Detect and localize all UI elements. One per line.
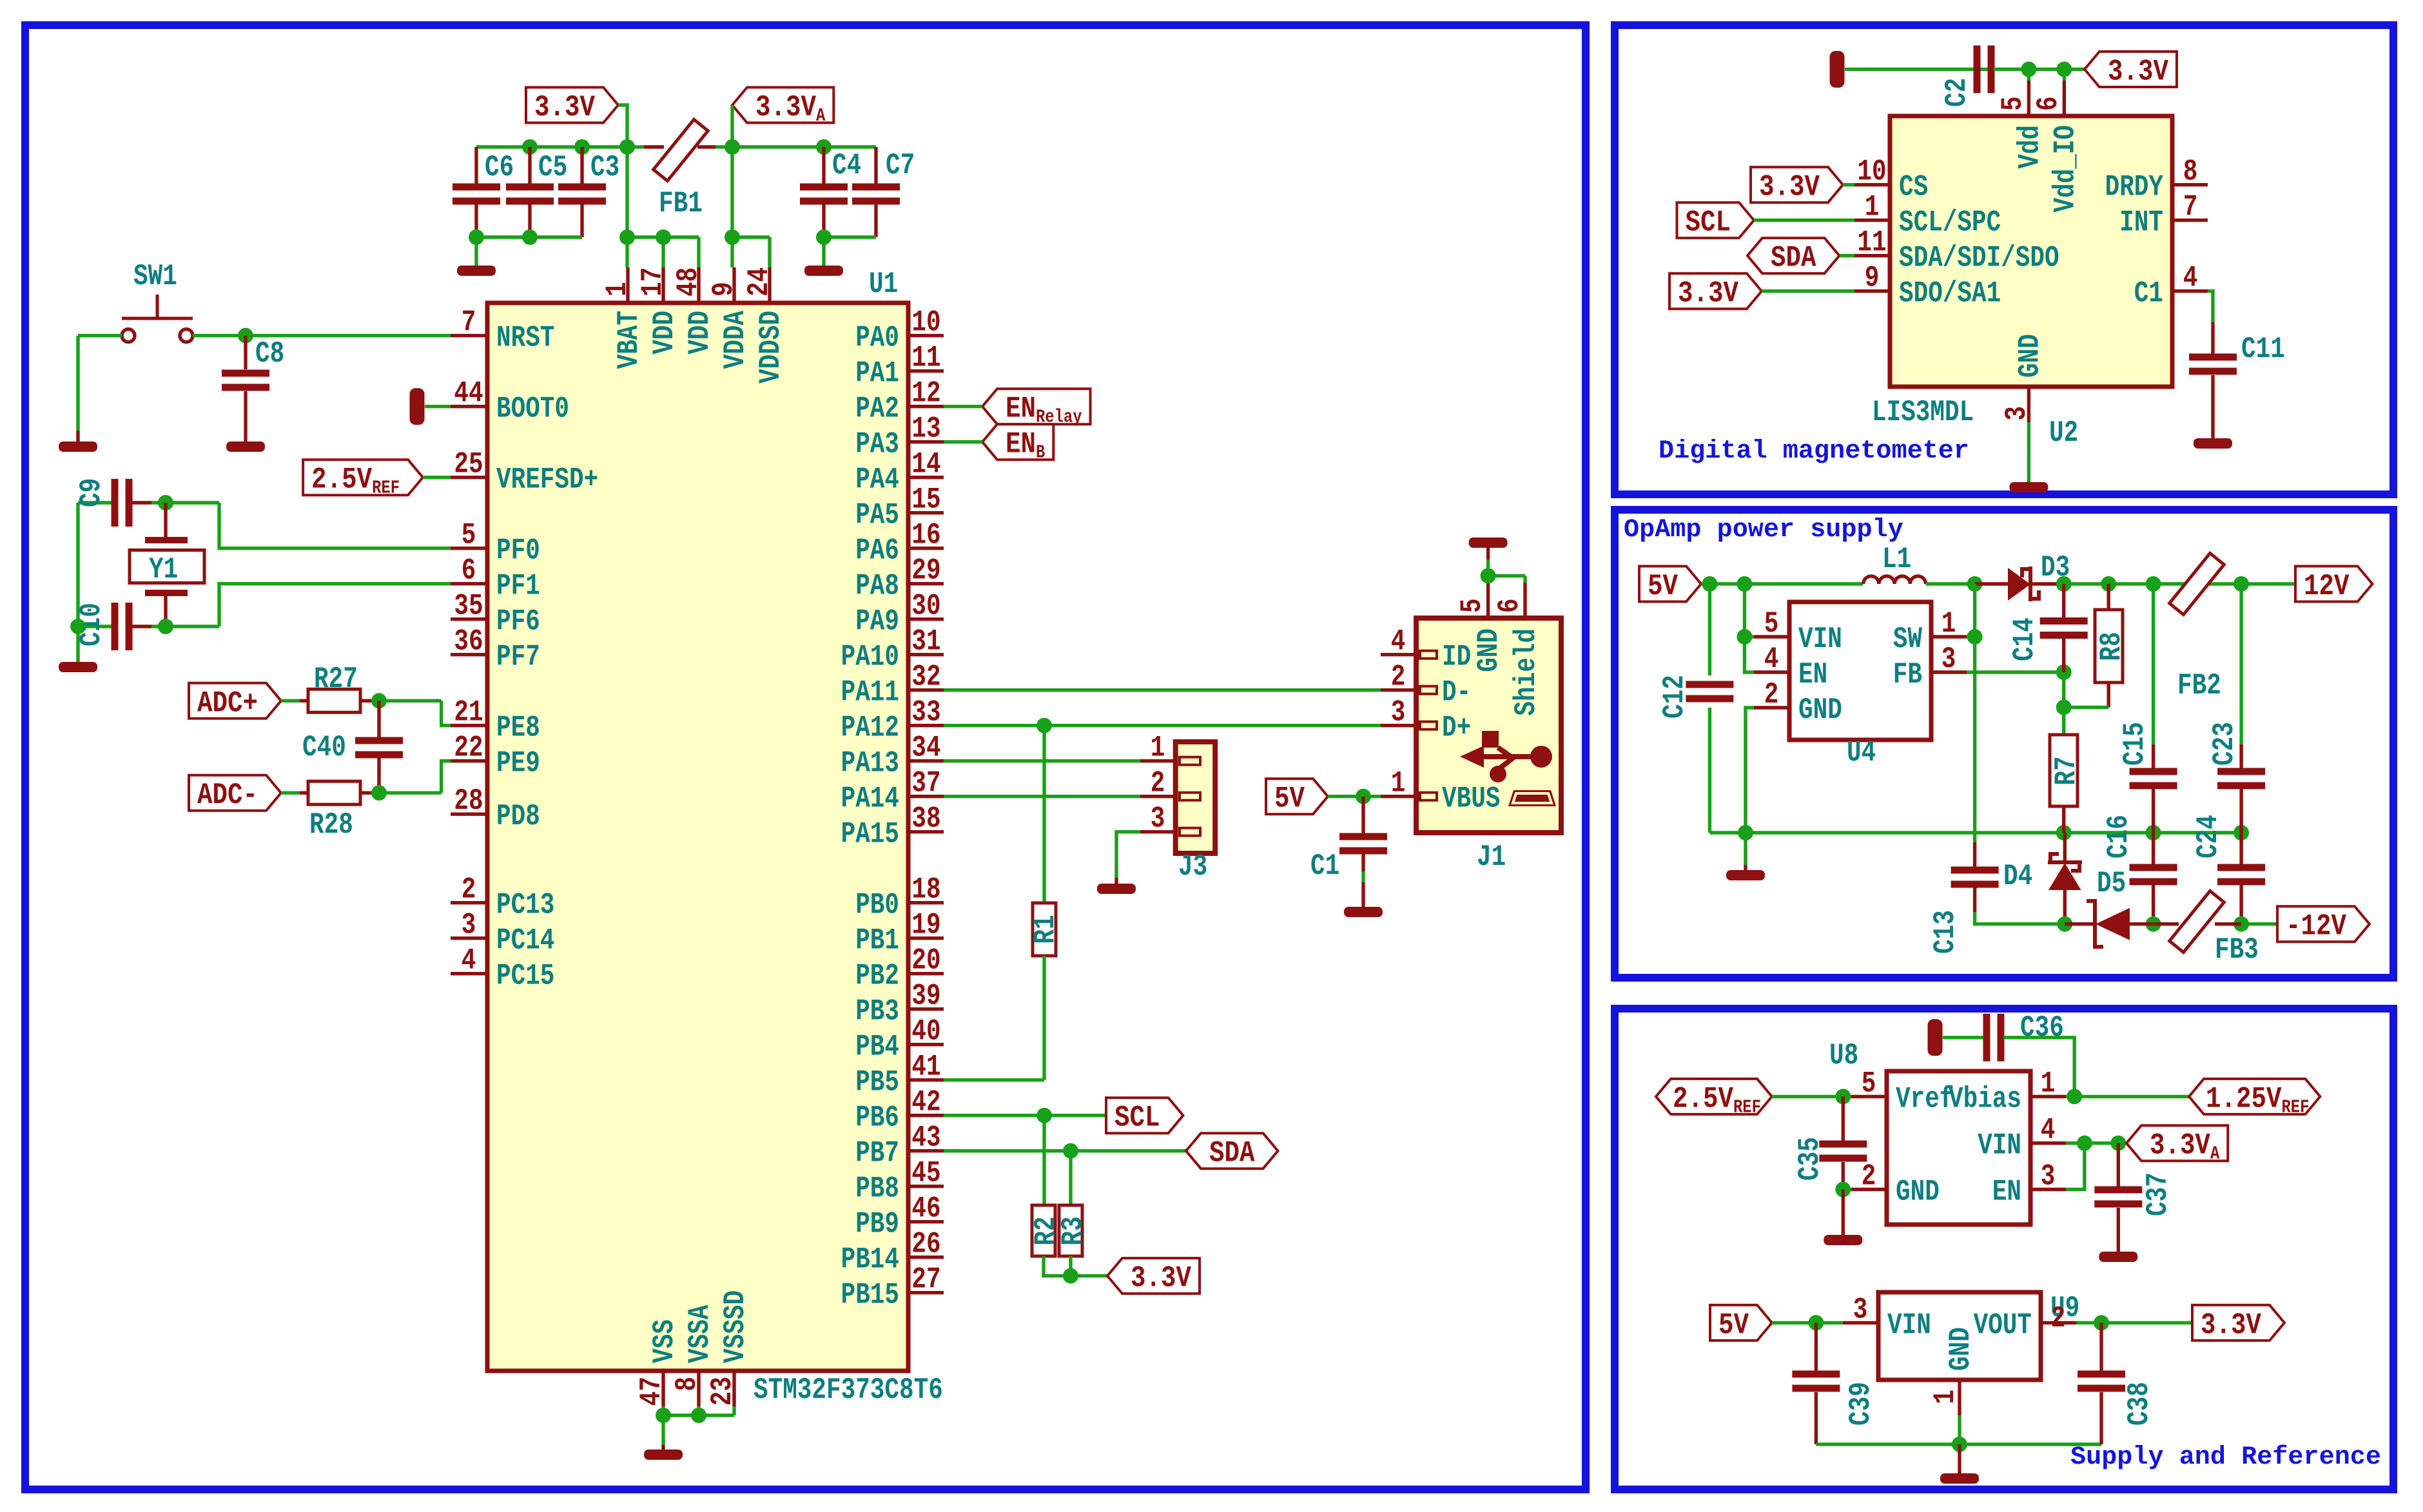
- U8 pin 3 EN: [2030, 1188, 2066, 1191]
- svg-text:REF: REF: [372, 478, 400, 499]
- junction pin1 bus: [619, 229, 635, 245]
- svg-text:VIN: VIN: [1798, 622, 1842, 656]
- svg-text:C15: C15: [2117, 722, 2152, 766]
- svg-text:C6: C6: [485, 150, 514, 184]
- wire 5V rail left: [1701, 582, 1863, 585]
- label EN_Relay: [982, 389, 1091, 424]
- power label 3.3V (U2): [2085, 52, 2177, 87]
- svg-text:REF: REF: [2282, 1096, 2310, 1118]
- wire SDA to U2: [1840, 254, 1854, 257]
- U1 pin 41 PB5: [908, 1078, 944, 1081]
- ground below SW1: [59, 441, 97, 452]
- junction pin9 bus: [725, 229, 740, 245]
- svg-text:FB3: FB3: [2215, 933, 2259, 967]
- junction C3 top: [574, 139, 590, 155]
- svg-text:PE8: PE8: [496, 711, 540, 745]
- ferrite bead FB2: [2170, 553, 2224, 614]
- wire FB to divider: [1967, 670, 2064, 674]
- capacitor C12: [1708, 584, 1711, 675]
- wire PA2 to EN_Relay: [944, 405, 982, 408]
- svg-text:C8: C8: [255, 336, 284, 371]
- svg-text:C2: C2: [1940, 78, 1974, 107]
- svg-text:PB9: PB9: [855, 1207, 899, 1241]
- J3 pin 3: [1140, 830, 1176, 833]
- svg-text:U2: U2: [2049, 416, 2078, 450]
- wire C2 to 3.3V: [1994, 68, 2085, 71]
- svg-text:J3: J3: [1178, 849, 1207, 884]
- svg-text:Vdd_IO: Vdd_IO: [2048, 125, 2082, 213]
- ground below U2: [2009, 482, 2048, 492]
- svg-text:36: 36: [454, 625, 483, 659]
- junction Vdd_IO: [2056, 62, 2072, 77]
- svg-text:U4: U4: [1847, 735, 1876, 770]
- wire PA11 to D-: [944, 688, 1381, 692]
- FB1 leads: [644, 145, 715, 148]
- junction C6 bottom: [469, 229, 484, 245]
- svg-text:3.3V: 3.3V: [1678, 276, 1738, 311]
- power label 3.3V (box3 out): [2192, 1305, 2284, 1341]
- svg-text:VSSA: VSSA: [683, 1305, 717, 1363]
- wire PB6 to SCL: [944, 1114, 1106, 1117]
- svg-text:C7: C7: [886, 148, 915, 182]
- U1 pin 44 BOOT0: [451, 405, 487, 408]
- svg-text:VDDA: VDDA: [718, 311, 752, 369]
- wire U9 gnd pin: [1958, 1415, 1961, 1444]
- svg-text:C23: C23: [2207, 722, 2241, 766]
- J1 pin 6 Shield (top): [1523, 583, 1526, 618]
- svg-text:GND: GND: [2012, 334, 2047, 378]
- capacitor C36: [1983, 1014, 1990, 1061]
- svg-text:5V: 5V: [1648, 569, 1678, 603]
- junction Vdd: [2021, 62, 2036, 77]
- wire PA13 to J3 pin1: [944, 759, 1140, 762]
- U1 pin 25 VREFSD+: [451, 476, 487, 479]
- svg-text:SDA: SDA: [1771, 241, 1816, 275]
- svg-text:4: 4: [462, 944, 476, 978]
- U1 pin 7 NRST: [451, 334, 487, 337]
- wire 5V to U9: [1772, 1321, 1843, 1324]
- U1 pin 14 PA4: [908, 476, 944, 479]
- junction FB/C14: [2056, 664, 2072, 680]
- svg-text:48: 48: [671, 267, 705, 296]
- wire PB5: [944, 1078, 1044, 1081]
- wire 2.5VREF to U8: [1772, 1095, 1851, 1098]
- junction C23 top: [2233, 576, 2249, 592]
- label ADC-: [189, 775, 281, 811]
- U8 pin 5 Vref: [1851, 1095, 1887, 1098]
- wire 3.3VA label to rail: [730, 105, 734, 147]
- svg-text:46: 46: [911, 1192, 940, 1226]
- U1 pin 29 PA8: [908, 582, 944, 585]
- wire gnd bottom: [1816, 1442, 2101, 1446]
- U1 pin 31 PA10: [908, 653, 944, 656]
- svg-text:VREFSD+: VREFSD+: [496, 463, 598, 497]
- push button SW1: [122, 329, 135, 342]
- U1 pin 12 PA2: [908, 405, 944, 408]
- U8 pin 1 Vbias: [2030, 1095, 2066, 1098]
- junction C9/C10 left: [70, 619, 86, 634]
- wire 2.5VREF to pin: [423, 476, 451, 479]
- junction C39: [1808, 1315, 1824, 1330]
- wire SW1 to NRST: [193, 334, 451, 337]
- U8 pin 2 GND: [1851, 1188, 1887, 1191]
- svg-text:4: 4: [1391, 625, 1406, 659]
- svg-text:C11: C11: [2241, 332, 2285, 366]
- svg-text:STM32F373C8T6: STM32F373C8T6: [754, 1373, 943, 1407]
- svg-text:1: 1: [1941, 606, 1956, 641]
- svg-text:PB1: PB1: [855, 924, 899, 958]
- junction C5 bottom: [522, 229, 538, 245]
- wire 5V to VBUS: [1328, 795, 1381, 798]
- svg-text:R8: R8: [2094, 632, 2128, 661]
- svg-text:LIS3MDL: LIS3MDL: [1872, 395, 1974, 429]
- U1 pin 22 PE9: [451, 759, 487, 762]
- svg-text:EN: EN: [1992, 1175, 2021, 1209]
- svg-text:PC15: PC15: [496, 959, 554, 993]
- U1 pin 35 PF6: [451, 617, 487, 621]
- lead to gnd bar: [1486, 548, 1490, 559]
- svg-text:PA10: PA10: [841, 640, 899, 674]
- junction VSS: [656, 1408, 671, 1423]
- junction U4 VIN drop: [1737, 576, 1752, 592]
- connector J1 USB: [1416, 618, 1561, 833]
- wire ADC- to R28: [281, 791, 300, 794]
- power label 3.3VA (box3): [2126, 1125, 2228, 1161]
- junction GND/Shield: [1481, 568, 1496, 583]
- power label 5V (VBUS): [1266, 779, 1328, 814]
- svg-text:U8: U8: [1829, 1038, 1858, 1072]
- U1 pin 16 PA6: [908, 547, 944, 550]
- svg-text:PA9: PA9: [855, 605, 899, 639]
- wire gnd pin: [1843, 1188, 1851, 1191]
- junction R28/C40: [371, 785, 387, 800]
- resistor R27: [308, 689, 360, 712]
- svg-text:47: 47: [634, 1377, 668, 1406]
- junction C10/Y1 bottom: [158, 619, 173, 634]
- wire PB7 to SDA: [944, 1149, 1186, 1152]
- svg-text:PA6: PA6: [855, 534, 899, 568]
- U1 pin 34 PA13: [908, 759, 944, 762]
- power label 5V (opamp): [1639, 567, 1701, 602]
- svg-text:2.5V: 2.5V: [1673, 1081, 1733, 1116]
- wire to top pins: [2029, 70, 2064, 81]
- svg-text:1: 1: [1865, 190, 1880, 224]
- svg-text:40: 40: [911, 1014, 940, 1049]
- power label 3.3V (CS): [1751, 167, 1843, 202]
- svg-text:3.3V: 3.3V: [2150, 1129, 2210, 1163]
- label ADC+: [189, 683, 281, 719]
- U8 pin 4 VIN: [2030, 1141, 2066, 1145]
- ground below C1: [1344, 907, 1383, 917]
- wire SCL to U2: [1754, 218, 1854, 222]
- junction R2/R3: [1063, 1268, 1078, 1284]
- capacitor C2: [1974, 46, 1981, 93]
- wire VIN/EN: [1744, 584, 1754, 672]
- junction R8 top: [2101, 576, 2116, 592]
- main sheet border (left): [25, 25, 1586, 1489]
- svg-text:2: 2: [2051, 1301, 2066, 1335]
- U1 pin 43 PB7: [908, 1149, 944, 1152]
- power label 3.3V (top): [526, 88, 618, 123]
- U2 pin 7 INT: [2172, 218, 2208, 222]
- U1 pin 28 PD8: [451, 812, 487, 815]
- U1 pin 36 PF7: [451, 653, 487, 656]
- wire to -12V: [2241, 922, 2277, 926]
- diode D5 (schottky): [2065, 922, 2095, 926]
- label EN_B: [982, 424, 1053, 460]
- svg-text:4: 4: [1764, 642, 1779, 676]
- junction VIN/EN: [2077, 1136, 2092, 1151]
- svg-text:26: 26: [911, 1227, 940, 1261]
- junction R7 bottom: [2056, 825, 2072, 840]
- svg-text:1.25V: 1.25V: [2206, 1081, 2282, 1116]
- wire R1 to PB5: [1042, 956, 1046, 1080]
- wire PA3 to EN_B: [944, 440, 982, 443]
- wire gnd to C36: [1943, 1036, 1985, 1039]
- junction C9/Y1 top: [158, 495, 173, 510]
- ferrite bead FB1: [654, 119, 708, 180]
- svg-text:C16: C16: [2101, 815, 2136, 858]
- wire to gnd left: [474, 237, 478, 266]
- wire gnd to C2: [1845, 68, 1988, 71]
- U2 pin 5 Vdd (top): [2027, 81, 2030, 116]
- svg-text:PB14: PB14: [841, 1243, 899, 1277]
- ground below C37: [2099, 1252, 2137, 1262]
- svg-text:PB0: PB0: [855, 888, 899, 922]
- svg-text:GND: GND: [1798, 693, 1842, 727]
- GND lead: [661, 1445, 665, 1451]
- svg-text:R27: R27: [314, 662, 358, 696]
- diode D3 (schottky): [1975, 582, 2008, 585]
- U1 pin 47 VSS (bottom): [661, 1371, 665, 1406]
- magnetometer U2 body: [1890, 116, 2172, 387]
- junction C4 top: [816, 139, 832, 155]
- power label 3.3V (SDO): [1669, 273, 1762, 309]
- U1 pin 11 PA1: [908, 369, 944, 373]
- svg-text:PC13: PC13: [496, 888, 554, 922]
- capacitor C37: [2117, 1143, 2120, 1187]
- svg-text:SCL/SPC: SCL/SPC: [1899, 206, 2001, 240]
- svg-text:1: 1: [600, 282, 634, 296]
- svg-text:PB7: PB7: [855, 1136, 899, 1170]
- svg-text:30: 30: [911, 589, 940, 623]
- svg-text:SDA: SDA: [1209, 1136, 1255, 1170]
- svg-text:3: 3: [1853, 1292, 1868, 1326]
- ground below C35: [1824, 1235, 1862, 1245]
- J3 pin 2: [1140, 795, 1176, 798]
- U1 pin 30 PA9: [908, 617, 944, 621]
- svg-text:OpAmp power supply: OpAmp power supply: [1624, 516, 1903, 545]
- svg-text:44: 44: [454, 376, 483, 411]
- junction gnd rail U4: [1738, 825, 1753, 840]
- svg-text:3.3V: 3.3V: [534, 90, 595, 124]
- capacitor C24: [2239, 833, 2243, 866]
- label 1.25VREF: [2189, 1079, 2320, 1114]
- svg-text:C39: C39: [1844, 1382, 1878, 1426]
- U4 pin 3 FB: [1931, 670, 1967, 674]
- wire 3.3V label to rail: [618, 105, 627, 147]
- power label 5V (box3): [1710, 1305, 1772, 1341]
- capacitor C4: [822, 147, 825, 184]
- junction 3.3V drop: [619, 139, 635, 155]
- capacitor C10: [78, 625, 112, 628]
- U2 pin 6 Vdd_IO (top): [2063, 81, 2066, 116]
- ground above J1: [1469, 538, 1508, 548]
- wire R8 to R7 tap: [2064, 706, 2109, 709]
- svg-text:VDD: VDD: [683, 311, 717, 354]
- svg-text:3.3V: 3.3V: [1759, 170, 1820, 204]
- U1 pin 45 PB8: [908, 1185, 944, 1188]
- J3 pin 1: [1140, 759, 1176, 762]
- wire 3.3V to CS: [1843, 183, 1854, 186]
- junction 3.3VA drop: [725, 139, 740, 155]
- svg-text:8: 8: [2183, 155, 2198, 189]
- svg-text:1: 1: [1151, 731, 1165, 765]
- svg-text:GND: GND: [1472, 628, 1506, 672]
- svg-text:FB: FB: [1893, 657, 1922, 692]
- capacitor C16: [2152, 833, 2155, 866]
- power label 3.3VA (top): [732, 88, 833, 123]
- svg-text:BOOT0: BOOT0: [496, 392, 569, 426]
- J1 pin 5 GND (top): [1486, 583, 1490, 618]
- U1 pin 46 PB9: [908, 1220, 944, 1223]
- ground bar left of C2: [1830, 51, 1845, 88]
- junction VBUS/C1: [1356, 789, 1371, 804]
- svg-text:3: 3: [2041, 1159, 2056, 1194]
- svg-text:PA8: PA8: [855, 569, 899, 603]
- svg-text:R1: R1: [1028, 915, 1062, 944]
- svg-text:10: 10: [1857, 155, 1886, 189]
- svg-text:REF: REF: [1733, 1096, 1761, 1118]
- svg-text:15: 15: [911, 483, 940, 517]
- svg-text:2: 2: [1764, 677, 1779, 712]
- junction R27/C40: [371, 693, 387, 708]
- label SCL: [1106, 1098, 1183, 1133]
- U1 pin 23 VSSSD (bottom): [732, 1371, 735, 1406]
- junction C16/D5: [2146, 916, 2161, 932]
- svg-text:18: 18: [911, 873, 940, 907]
- svg-text:VDDSD: VDDSD: [754, 311, 788, 383]
- svg-text:C24: C24: [2191, 815, 2225, 858]
- U2 pin 11 SDA/SDI/SDO: [1854, 254, 1890, 257]
- capacitor C5: [528, 147, 531, 184]
- svg-text:4: 4: [2183, 261, 2198, 295]
- svg-text:2: 2: [1391, 660, 1406, 694]
- wire EN tie to VIN: [2066, 1143, 2085, 1190]
- resistor R8: [2107, 584, 2110, 610]
- U1 pin 5 PF0: [451, 547, 487, 550]
- MCU U1 body: [487, 303, 908, 1371]
- svg-text:U1: U1: [869, 267, 898, 301]
- U1 pin 39 PB3: [908, 1007, 944, 1011]
- svg-text:3: 3: [1151, 802, 1165, 836]
- capacitor C14: [2062, 584, 2065, 617]
- svg-text:43: 43: [911, 1121, 940, 1155]
- junction R8/R7: [2056, 699, 2072, 715]
- junction C12 top: [1702, 576, 1717, 592]
- U1 pin 3 PC14: [451, 936, 487, 940]
- svg-text:L1: L1: [1882, 542, 1911, 576]
- ground below C6: [457, 266, 496, 276]
- U1 pin 15 PA5: [908, 511, 944, 514]
- svg-text:4: 4: [2041, 1113, 2056, 1147]
- svg-text:ID: ID: [1442, 640, 1471, 674]
- U1 pin 1 VBAT (top): [626, 267, 629, 303]
- junction C5 top: [522, 139, 538, 155]
- svg-text:C40: C40: [302, 730, 346, 764]
- svg-text:INT: INT: [2119, 206, 2163, 240]
- U1 pin 40 PB4: [908, 1043, 944, 1046]
- capacitor C23: [2239, 584, 2243, 744]
- wire L1 to SW node: [1926, 582, 1975, 585]
- svg-text:19: 19: [911, 908, 940, 942]
- junction C15/C16: [2146, 825, 2161, 840]
- junction PB6/R2: [1036, 1108, 1052, 1123]
- junction U9 gnd: [1952, 1437, 1967, 1452]
- svg-text:1: 1: [1391, 766, 1406, 800]
- U1 pin 6 PF1: [451, 582, 487, 585]
- resistor R28: [308, 781, 360, 804]
- svg-text:ADC+: ADC+: [197, 686, 258, 720]
- svg-text:3: 3: [1941, 642, 1956, 676]
- svg-text:Shield: Shield: [1509, 628, 1543, 716]
- svg-text:33: 33: [911, 695, 940, 730]
- wire VSS ground bus: [663, 1406, 734, 1445]
- wire Y1 bottom to PF1: [219, 584, 451, 626]
- junction C15 top: [2146, 576, 2161, 592]
- label SDA (U2): [1747, 238, 1840, 273]
- svg-text:3.3V: 3.3V: [2201, 1308, 2261, 1342]
- reference U8 body: [1887, 1071, 2030, 1225]
- ground below U9: [1940, 1473, 1979, 1484]
- U1 pin 2 PC13: [451, 901, 487, 904]
- svg-text:PB4: PB4: [855, 1030, 899, 1064]
- J1 pin 3 D+: [1381, 724, 1416, 727]
- wire to gnd bar: [1744, 833, 1747, 865]
- resistor R1: [1042, 726, 1046, 903]
- svg-text:6: 6: [1492, 598, 1526, 613]
- svg-text:9: 9: [1865, 261, 1880, 295]
- junction D3/C14: [2056, 576, 2072, 592]
- junction C38: [2094, 1315, 2109, 1330]
- svg-text:VSSSD: VSSSD: [718, 1290, 752, 1363]
- svg-text:5: 5: [1764, 606, 1779, 641]
- svg-text:7: 7: [462, 305, 476, 340]
- supply and reference sheet border: [1615, 1009, 2393, 1489]
- svg-text:34: 34: [911, 731, 940, 765]
- svg-text:22: 22: [454, 731, 483, 765]
- U1 pin 4 PC15: [451, 972, 487, 975]
- power label -12V: [2277, 906, 2369, 942]
- wire caps right bus: [824, 235, 876, 238]
- ground below C8: [226, 441, 265, 452]
- svg-text:3: 3: [2000, 406, 2034, 421]
- capacitor C39: [1815, 1323, 1818, 1371]
- svg-text:C13: C13: [1928, 910, 1962, 954]
- wire Vbias to 1.25VREF: [2066, 1095, 2189, 1098]
- svg-text:12: 12: [911, 376, 940, 411]
- wire crystal left gnd: [76, 503, 79, 662]
- svg-text:25: 25: [454, 447, 483, 481]
- wire VOUT to 3.3V: [2076, 1321, 2192, 1324]
- resistor R7: [2050, 735, 2078, 806]
- ground bar left of C36: [1928, 1019, 1943, 1056]
- svg-text:23: 23: [705, 1377, 739, 1406]
- svg-text:PB8: PB8: [855, 1172, 899, 1206]
- svg-text:8: 8: [670, 1377, 704, 1391]
- junction D4/D5: [2057, 916, 2072, 932]
- wire PA14 to J3 pin2: [944, 795, 1140, 798]
